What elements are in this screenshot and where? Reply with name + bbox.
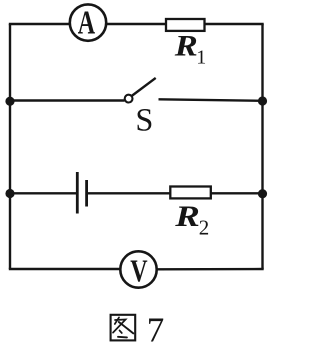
junction dot right-battery — [258, 189, 267, 198]
wire: R2 to right segment — [212, 192, 264, 194]
wire: battery row left segment — [9, 192, 77, 194]
label R2 — [174, 200, 209, 239]
svg-text:2: 2 — [199, 215, 210, 239]
ammeter A — [70, 4, 106, 41]
wire: left vertical — [9, 24, 11, 269]
wire: right vertical — [261, 24, 263, 269]
svg-text:1: 1 — [196, 47, 206, 69]
svg-text:V: V — [130, 254, 148, 289]
junction dot left-switch — [5, 97, 14, 106]
battery short plate — [85, 180, 88, 207]
svg-text:A: A — [78, 5, 96, 42]
resistor R1 — [166, 19, 205, 31]
svg-text:R: R — [174, 29, 198, 62]
voltmeter V — [120, 251, 156, 289]
wire: battery to R2 segment — [87, 192, 170, 194]
svg-text:7: 7 — [147, 311, 165, 345]
wire: bottom right segment — [157, 268, 264, 271]
caption: character 图 (figure) drawn as strokes — [111, 315, 136, 341]
wire: bottom left segment — [9, 268, 120, 270]
battery long plate — [76, 172, 79, 214]
label R1 — [174, 29, 207, 69]
svg-text:S: S — [135, 102, 153, 138]
wire: top middle segment (ammeter to R1) — [107, 23, 166, 25]
wire: top right segment (R1 to corner) — [205, 23, 264, 25]
switch S lever — [132, 78, 156, 96]
wire: switch row right segment — [159, 99, 264, 101]
wire: switch row left segment — [9, 99, 125, 101]
wire: top left segment (corner to ammeter) — [9, 23, 69, 25]
junction dot left-battery — [5, 189, 14, 198]
svg-text:R: R — [174, 200, 200, 233]
resistor R2 — [170, 187, 211, 199]
switch S pivot — [125, 95, 133, 103]
junction dot right-switch — [258, 96, 267, 105]
